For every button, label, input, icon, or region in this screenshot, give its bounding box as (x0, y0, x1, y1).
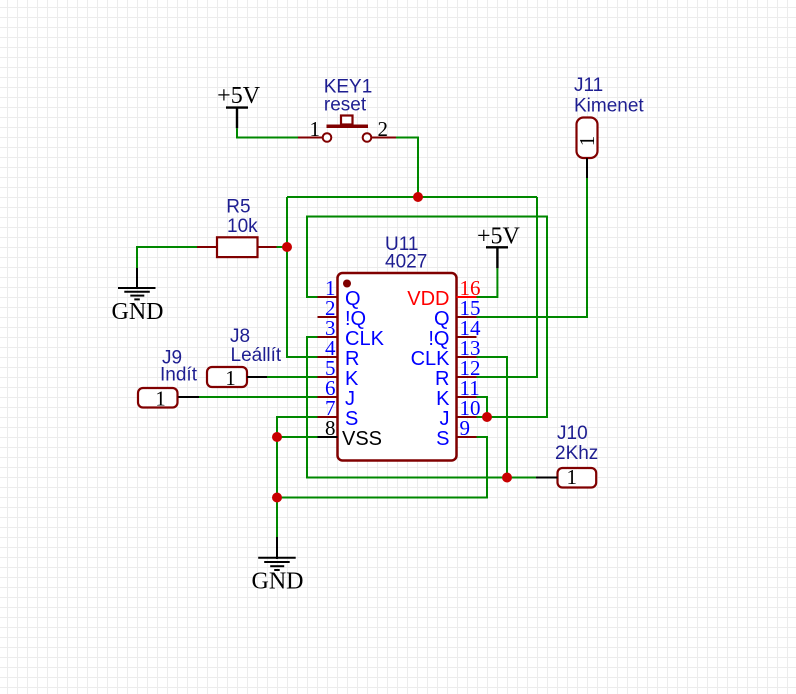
wire clock branch pin13 (477, 357, 508, 478)
connector J11 Kimenet (574, 75, 644, 178)
wire J11 to pin 15 (477, 178, 588, 317)
wire KEY1 pin 2 to reset net (396, 138, 418, 198)
wire R5 to GND (137, 247, 197, 268)
svg-text:4027: 4027 (385, 252, 427, 273)
wire clock pin3 to J10 (307, 337, 536, 478)
connector J10 2Khz (536, 423, 598, 489)
pin 8 VSS (318, 436, 338, 438)
pin 5 K (318, 376, 338, 378)
junction gnd bottom (272, 493, 282, 503)
pin 12 R (457, 376, 477, 378)
wire Q feedback pin1 to pins 10/11 (307, 217, 547, 418)
wire gnd net pin8 (277, 436, 318, 438)
wire gnd net pin7 (277, 417, 318, 538)
svg-text:J: J (440, 408, 450, 430)
pin 1 Q (318, 296, 338, 298)
power symbol +5V right (477, 224, 521, 269)
wire R5 to reset junction (277, 246, 288, 248)
pin 6 J (318, 396, 338, 398)
resistor R5 (197, 197, 277, 258)
pin 7 S (318, 416, 338, 418)
svg-text:K: K (345, 368, 359, 390)
svg-text:!Q: !Q (345, 308, 366, 330)
svg-text:S: S (345, 408, 358, 430)
wire gnd net bottom to pin9 (277, 437, 487, 498)
connector J8 Leallit (207, 326, 282, 390)
wire reset net horizontal (287, 196, 537, 198)
svg-text:CLK: CLK (345, 328, 385, 350)
junction reset/KEY1 (413, 192, 423, 202)
pin 15 Q (457, 316, 477, 318)
svg-text:R: R (435, 368, 449, 390)
svg-text:R: R (345, 348, 359, 370)
pin 4 R (318, 356, 338, 358)
svg-text:J8: J8 (230, 326, 250, 347)
IC U11 4027 (338, 234, 457, 461)
pushbutton KEY1 (298, 77, 396, 142)
svg-text:R5: R5 (226, 197, 250, 218)
power symbol +5V top-left (217, 83, 261, 128)
svg-text:!Q: !Q (428, 328, 449, 350)
svg-text:K: K (436, 388, 450, 410)
junction R5 right (282, 242, 292, 252)
pin 9 S (457, 436, 477, 438)
svg-text:1: 1 (225, 366, 236, 390)
pin 3 CLK (318, 336, 338, 338)
pin 13 CLK (457, 356, 477, 358)
junction clock/J10 (502, 473, 512, 483)
pin 14 !Q (457, 336, 477, 338)
ground GND bottom (252, 537, 304, 595)
svg-text:S: S (436, 428, 449, 450)
pin 10 J (457, 416, 477, 418)
svg-text:1: 1 (310, 117, 321, 141)
svg-text:1: 1 (155, 387, 166, 411)
svg-text:2Khz: 2Khz (555, 443, 598, 464)
svg-text:+5V: +5V (217, 83, 261, 109)
wire pin 11 branch (477, 397, 488, 417)
wire reset net left drop to pin 4 R (287, 197, 318, 357)
svg-text:Kimenet: Kimenet (574, 96, 644, 117)
connector J9 Indit (138, 348, 199, 411)
svg-text:J11: J11 (574, 75, 603, 96)
svg-text:Indít: Indít (160, 365, 198, 386)
svg-text:Q: Q (345, 288, 361, 310)
svg-text:8: 8 (325, 416, 336, 440)
wire reset net right drop to pin 12 R (477, 197, 538, 377)
svg-text:1: 1 (575, 136, 599, 147)
svg-text:10k: 10k (227, 216, 258, 237)
wire +5V to KEY1 pin 1 (237, 128, 298, 137)
svg-text:VDD: VDD (407, 288, 449, 310)
svg-text:CLK: CLK (411, 348, 451, 370)
pin 11 K (457, 396, 477, 398)
junction gnd/pin8 (272, 432, 282, 442)
wire J8 to pin 5 (267, 376, 318, 378)
ground GND left (112, 268, 164, 325)
wire J9 to pin 6 (199, 396, 318, 398)
svg-text:GND: GND (252, 569, 304, 595)
svg-text:+5V: +5V (477, 224, 521, 250)
junction pins 10/11 (482, 412, 492, 422)
svg-text:Leállít: Leállít (231, 345, 282, 366)
pin 1 marker dot (343, 280, 351, 288)
pin 2 !Q (318, 316, 338, 318)
svg-text:9: 9 (460, 416, 471, 440)
svg-text:J10: J10 (557, 423, 588, 444)
svg-text:J: J (345, 388, 355, 410)
svg-text:VSS: VSS (342, 428, 382, 450)
wire +5V to pin 16 VDD (477, 268, 498, 297)
svg-text:reset: reset (324, 95, 367, 116)
svg-text:Q: Q (434, 308, 450, 330)
svg-text:GND: GND (112, 299, 164, 325)
svg-text:2: 2 (378, 117, 389, 141)
pin 16 VDD (457, 296, 477, 298)
svg-text:1: 1 (567, 465, 578, 489)
